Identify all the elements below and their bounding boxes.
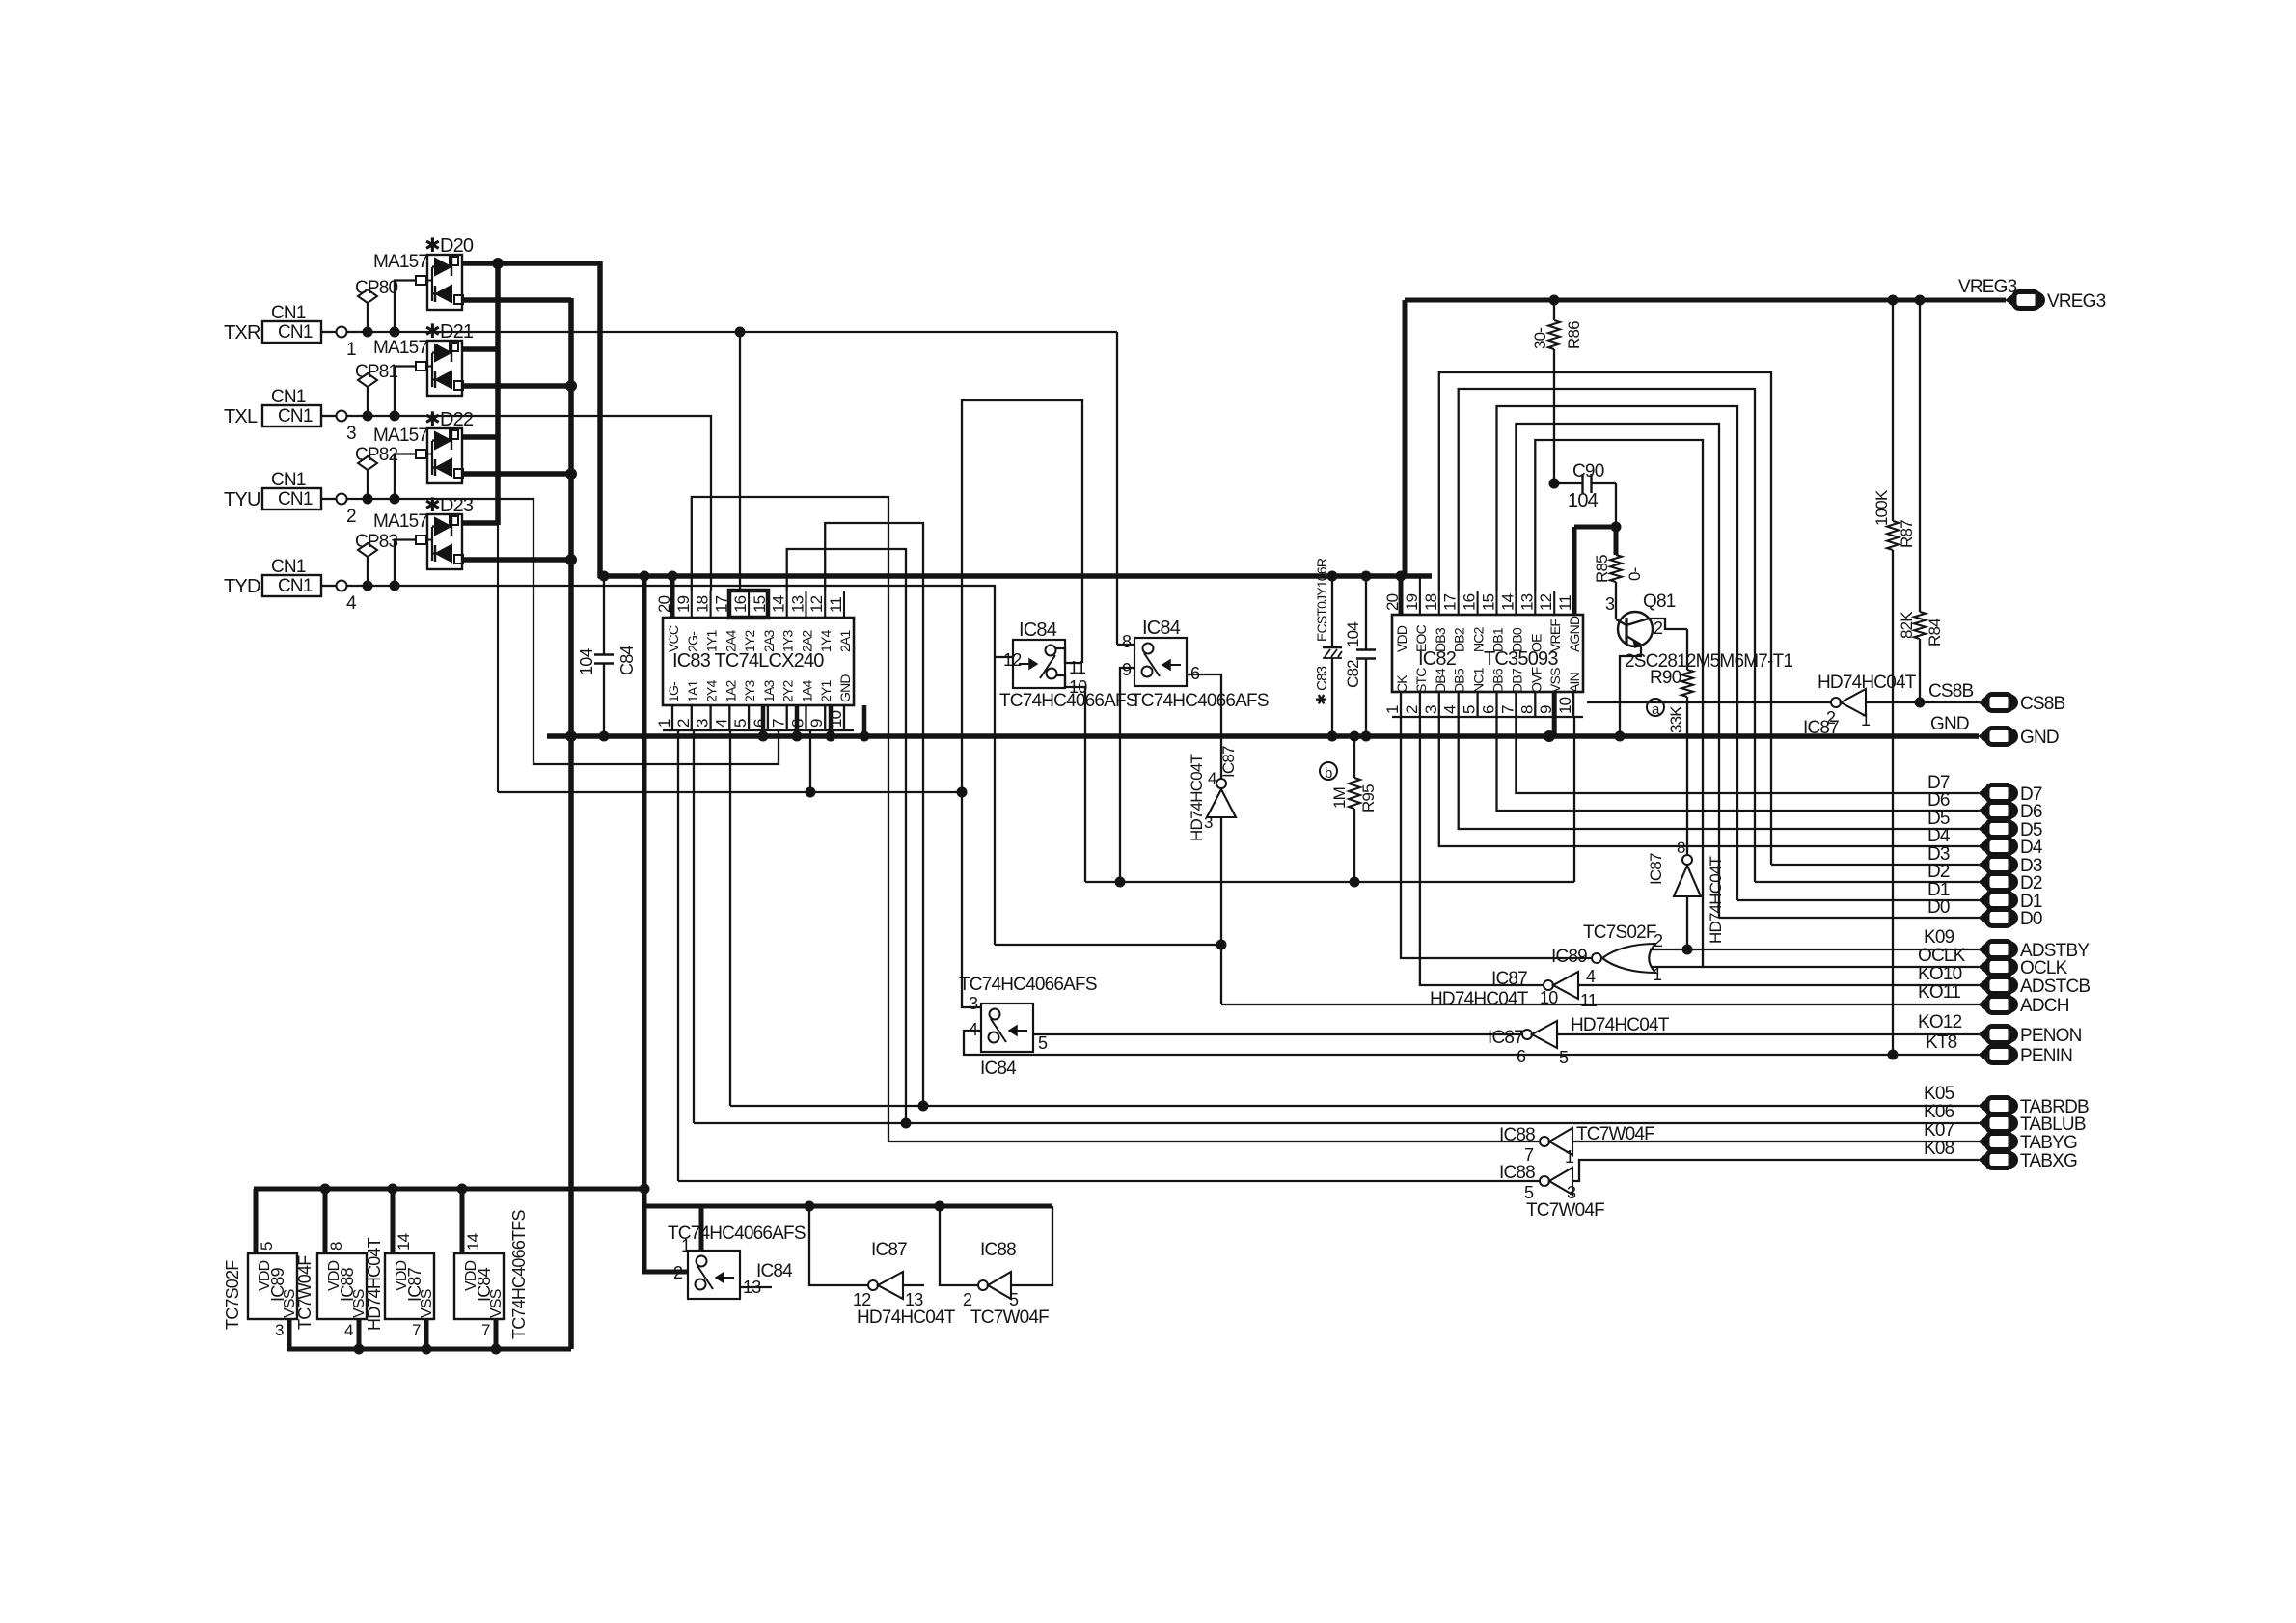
terminal D1 — [1927, 880, 2042, 912]
terminal ADSTBY — [1979, 942, 1989, 958]
svg-text:DB4: DB4 — [1433, 668, 1448, 693]
IC83 VCC pin to VDD bus — [670, 576, 675, 618]
svg-text:ADCH: ADCH — [2020, 996, 2069, 1016]
svg-text:C84: C84 — [617, 646, 637, 675]
svg-text:9: 9 — [1122, 660, 1132, 679]
terminal PENON — [1979, 1027, 1989, 1043]
svg-text:5: 5 — [1009, 1290, 1019, 1309]
wire AGND link — [1574, 522, 1621, 615]
svg-text:OCLK: OCLK — [1918, 946, 1966, 966]
svg-text:D2: D2 — [1927, 862, 1950, 882]
svg-text:D1: D1 — [2020, 892, 2042, 912]
IC83 bottom pins — [655, 674, 854, 730]
dual diode D20 MA157 — [373, 235, 474, 310]
terminal D6 — [1927, 790, 2042, 822]
svg-text:GND: GND — [837, 674, 853, 702]
IC82 top pins — [1383, 576, 1582, 652]
terminal VREG3 — [1958, 277, 2106, 312]
svg-text:1Y3: 1Y3 — [780, 629, 796, 652]
wire TYD connector node — [347, 581, 428, 591]
svg-text:TC7W04F: TC7W04F — [1526, 1200, 1604, 1221]
spark gap CP80 — [355, 278, 398, 332]
svg-text:OE: OE — [1528, 634, 1544, 652]
wire IC83 pin14 loop to K06 — [787, 549, 911, 1128]
wire D22 pin3 lead — [395, 454, 416, 500]
svg-text:11: 11 — [827, 597, 845, 613]
wire IC82 pin15 loop — [1497, 406, 1738, 900]
wire diode cathode common to VDD — [462, 259, 600, 579]
svg-text:104: 104 — [1344, 622, 1362, 647]
svg-text:IC87: IC87 — [871, 1240, 907, 1260]
svg-text:R85: R85 — [1593, 555, 1611, 583]
svg-text:17: 17 — [1441, 593, 1460, 611]
terminal CS8B — [1979, 695, 1989, 711]
svg-text:✱D20: ✱D20 — [424, 235, 474, 257]
svg-text:AIN: AIN — [1567, 673, 1582, 693]
svg-text:TC7S02F: TC7S02F — [223, 1260, 242, 1330]
NOR gate IC89 TC7S02F — [1551, 922, 1663, 986]
svg-text:R86: R86 — [1565, 321, 1583, 349]
svg-text:10: 10 — [1540, 988, 1558, 1007]
wire IC88 VDD stub — [323, 1189, 328, 1253]
wire TXL connector node — [347, 411, 428, 421]
svg-text:IC84: IC84 — [1142, 618, 1181, 639]
svg-text:VSS: VSS — [419, 1289, 435, 1318]
terminal D7 — [1927, 773, 2042, 805]
terminal GND — [1930, 714, 2059, 748]
svg-text:DB0: DB0 — [1509, 627, 1524, 652]
svg-text:11: 11 — [1069, 658, 1086, 677]
connector CN1 (TXL) — [224, 387, 356, 444]
resistor R87 100K — [1872, 300, 1916, 1059]
svg-text:TC74HC4066AFS: TC74HC4066AFS — [1131, 691, 1269, 711]
wire sw1 pin10 — [1056, 675, 1085, 882]
wire IC83 pin12 loop to K05 — [825, 523, 928, 1111]
svg-text:MA157: MA157 — [373, 338, 427, 358]
wire ADSTCB row — [1578, 964, 1979, 985]
svg-text:TC7W04F: TC7W04F — [1576, 1124, 1654, 1144]
wire sw4 pin2 hook — [644, 1206, 688, 1272]
svg-text:VSS: VSS — [1547, 668, 1563, 693]
svg-text:CN1: CN1 — [278, 489, 313, 509]
svg-text:KT8: KT8 — [1926, 1032, 1957, 1053]
wire VREG3 rail — [1405, 295, 2006, 305]
wire IC88 VSS stub — [357, 1319, 362, 1349]
svg-text:7: 7 — [1498, 705, 1517, 714]
wire column to switch pin3 — [962, 792, 981, 1007]
wire K06 row — [694, 1102, 1979, 1123]
svg-text:D7: D7 — [1927, 773, 1950, 793]
svg-text:18: 18 — [694, 595, 712, 613]
svg-text:4: 4 — [346, 593, 357, 614]
wire node T run — [498, 525, 967, 797]
wire IC83 pin1 to K08 source — [677, 730, 679, 1181]
svg-text:1: 1 — [655, 719, 673, 728]
resistor R90 33K — [1650, 629, 1693, 855]
svg-text:IC89: IC89 — [1551, 947, 1587, 967]
wire K05 row — [730, 1084, 1979, 1106]
power box IC84 — [454, 1233, 505, 1339]
wire D23 pin3 lead — [395, 540, 416, 587]
svg-text:C82: C82 — [1344, 660, 1362, 688]
svg-text:3: 3 — [275, 1321, 284, 1339]
svg-text:MA157: MA157 — [373, 426, 427, 446]
svg-text:IC87: IC87 — [1219, 746, 1238, 778]
svg-text:2A1: 2A1 — [837, 629, 853, 652]
svg-text:PENON: PENON — [2020, 1026, 2082, 1046]
svg-text:D5: D5 — [2020, 820, 2042, 840]
svg-text:14: 14 — [1498, 593, 1517, 611]
svg-text:VREG3: VREG3 — [2047, 291, 2106, 312]
svg-text:NC2: NC2 — [1471, 626, 1487, 652]
svg-text:ECST0JY106R: ECST0JY106R — [1314, 558, 1329, 642]
svg-text:CK: CK — [1394, 674, 1409, 693]
svg-text:DB2: DB2 — [1452, 627, 1467, 652]
resistor R95 1M — [1330, 731, 1378, 882]
svg-text:5: 5 — [1559, 1048, 1569, 1067]
svg-text:VCC: VCC — [666, 625, 681, 652]
svg-text:IC83 TC74LCX240: IC83 TC74LCX240 — [672, 650, 824, 672]
svg-text:6: 6 — [751, 719, 769, 728]
wire OCLK row — [1652, 946, 1979, 967]
svg-text:✱D22: ✱D22 — [424, 409, 474, 430]
svg-text:19: 19 — [674, 595, 693, 613]
svg-text:13: 13 — [1517, 593, 1536, 611]
wire IC83 pin4 to K05 — [729, 730, 731, 1106]
inverter IC88 (2/5) bottom — [940, 1206, 1052, 1328]
terminal D4 — [1927, 826, 2043, 858]
wire K07 row — [888, 1120, 1979, 1142]
svg-text:D0: D0 — [1927, 897, 1950, 918]
terminal PENIN — [1979, 1047, 1989, 1063]
svg-text:104: 104 — [1568, 490, 1599, 511]
connector CN1 (TXR) — [224, 303, 356, 360]
svg-text:PENIN: PENIN — [2020, 1046, 2072, 1066]
wire DB4 to D4 — [1439, 717, 1979, 846]
svg-text:1: 1 — [1383, 705, 1402, 714]
terminal ADSTCB — [1979, 977, 1989, 994]
svg-text:DB6: DB6 — [1490, 668, 1506, 693]
svg-text:14: 14 — [395, 1233, 413, 1251]
svg-text:13: 13 — [789, 595, 807, 613]
wire PENIN row — [964, 1031, 1979, 1055]
wire ADSTBY row — [1650, 927, 1979, 949]
resistor R84 82K — [1898, 300, 1944, 707]
svg-text:D5: D5 — [1927, 809, 1950, 829]
svg-text:11: 11 — [1556, 595, 1574, 611]
svg-text:7: 7 — [481, 1321, 490, 1339]
svg-text:2Y2: 2Y2 — [780, 679, 796, 702]
svg-text:IC84: IC84 — [756, 1261, 793, 1281]
analog switch IC84 (1/2/13) — [668, 1224, 806, 1299]
svg-text:K06: K06 — [1924, 1102, 1954, 1122]
inverter IC87 (6/5) on PENON — [1488, 1015, 1979, 1067]
resistor R86 30- — [1531, 295, 1583, 483]
svg-text:ADSTCB: ADSTCB — [2020, 977, 2090, 997]
svg-text:CN1: CN1 — [278, 576, 313, 596]
terminal TABRDB — [1979, 1098, 1989, 1114]
wire DB6 to D6 — [1497, 717, 1980, 811]
svg-text:2A3: 2A3 — [761, 629, 777, 652]
wire GND bus — [547, 731, 1979, 742]
wire TXL net — [427, 416, 711, 591]
svg-text:HD74HC04T: HD74HC04T — [1818, 673, 1917, 693]
svg-text:4: 4 — [712, 719, 730, 728]
svg-text:D4: D4 — [1927, 826, 1951, 846]
wire diode anode common to GND — [462, 298, 577, 1349]
wire DB7 to D7 — [1516, 717, 1979, 793]
svg-text:K08: K08 — [1924, 1139, 1954, 1159]
svg-text:1: 1 — [1861, 710, 1871, 729]
svg-text:IC88: IC88 — [980, 1240, 1016, 1260]
svg-text:TABYG: TABYG — [2020, 1133, 2077, 1153]
dual diode D23 MA157 — [373, 495, 474, 569]
svg-text:D0: D0 — [2020, 909, 2042, 929]
svg-text:2: 2 — [1403, 705, 1421, 714]
svg-text:1: 1 — [346, 340, 356, 360]
terminal TABYG — [1979, 1134, 1989, 1150]
svg-text:AGND: AGND — [1567, 616, 1582, 652]
svg-text:2A4: 2A4 — [723, 629, 738, 652]
svg-text:D7: D7 — [2020, 784, 2042, 805]
svg-text:5: 5 — [731, 719, 750, 728]
svg-text:6: 6 — [1480, 705, 1498, 714]
svg-text:HD74HC04T: HD74HC04T — [1571, 1015, 1670, 1035]
svg-text:K07: K07 — [1924, 1120, 1954, 1141]
capacitor C82 104 — [1344, 576, 1376, 736]
svg-text:3: 3 — [694, 719, 712, 728]
svg-text:8: 8 — [1677, 839, 1685, 857]
svg-text:2Y3: 2Y3 — [742, 679, 757, 702]
svg-text:1A1: 1A1 — [685, 679, 700, 702]
svg-text:R87: R87 — [1898, 520, 1916, 548]
svg-text:8: 8 — [327, 1242, 345, 1251]
svg-text:STC: STC — [1413, 668, 1429, 693]
svg-text:TXL: TXL — [224, 406, 258, 427]
svg-text:VSS: VSS — [488, 1289, 505, 1318]
svg-text:4: 4 — [1586, 967, 1596, 986]
svg-text:1: 1 — [681, 1236, 691, 1255]
svg-text:CS8B: CS8B — [1928, 681, 1974, 701]
svg-text:EOC: EOC — [1413, 624, 1429, 652]
svg-text:3: 3 — [1204, 813, 1213, 832]
svg-text:TC7W04F: TC7W04F — [970, 1307, 1049, 1328]
svg-text:1A4: 1A4 — [800, 679, 815, 702]
wire K08 row — [678, 1139, 1979, 1181]
svg-text:1A3: 1A3 — [761, 679, 777, 702]
svg-text:33K: 33K — [1667, 705, 1685, 733]
terminal ADCH — [1979, 997, 1989, 1013]
svg-text:3: 3 — [969, 994, 978, 1013]
svg-text:KO11: KO11 — [1918, 982, 1960, 1003]
svg-text:TYD: TYD — [224, 576, 260, 597]
svg-text:VREG3: VREG3 — [1958, 277, 2017, 297]
svg-text:D6: D6 — [2020, 802, 2042, 822]
IC IC83 TC74LCX240 body — [663, 618, 854, 705]
wire DB5 to D5 — [1459, 717, 1979, 829]
svg-text:MA157: MA157 — [373, 511, 427, 532]
svg-text:R95: R95 — [1359, 784, 1378, 812]
wire sw2 pin9 — [1115, 668, 1134, 887]
svg-text:D1: D1 — [1927, 880, 1950, 900]
svg-text:3: 3 — [346, 424, 356, 444]
inverter IC87 (4/3) HD74HC04T — [1188, 746, 1238, 841]
capacitor C90 104 — [1549, 461, 1616, 527]
wire TXR net — [427, 327, 1117, 645]
wire VREG3 trunk to VDD bus — [1403, 300, 1408, 576]
svg-text:TABLUB: TABLUB — [2020, 1114, 2086, 1135]
wire switch sw1 upper loop — [962, 400, 1082, 792]
svg-text:4: 4 — [344, 1321, 353, 1339]
svg-text:8: 8 — [1122, 632, 1132, 651]
svg-text:1Y2: 1Y2 — [742, 629, 757, 652]
svg-text:12: 12 — [1003, 650, 1022, 670]
svg-text:12: 12 — [853, 1290, 871, 1309]
analog switch IC84 (3/4/5) — [959, 975, 1097, 1079]
wire CS8B net — [1866, 681, 1979, 702]
IC83 ground stubs — [758, 705, 869, 741]
wire IC82 pin17 loop — [1459, 389, 1755, 882]
wire D2 from loop — [1755, 881, 1979, 883]
svg-text:R90: R90 — [1650, 668, 1681, 688]
wire IC89 VSS stub — [287, 1319, 292, 1349]
svg-text:16: 16 — [1461, 593, 1479, 611]
power box IC89 — [248, 1242, 298, 1339]
connector CN1 (TYU) — [224, 470, 356, 527]
svg-text:KO12: KO12 — [1918, 1012, 1962, 1032]
svg-text:15: 15 — [1480, 593, 1498, 611]
spark gap CP83 — [355, 532, 398, 586]
svg-text:2: 2 — [346, 507, 356, 527]
inverter IC87 (12/13) bottom — [809, 1206, 956, 1328]
svg-text:2Y1: 2Y1 — [818, 679, 834, 702]
svg-text:TC74HC4066AFS: TC74HC4066AFS — [999, 691, 1137, 711]
wire VDD trunk — [640, 576, 649, 1272]
svg-text:IC84: IC84 — [980, 1059, 1017, 1079]
power box IC87 — [385, 1233, 435, 1339]
svg-text:Q81: Q81 — [1643, 591, 1676, 612]
wire sw2 pin6 to inverter — [1187, 674, 1221, 779]
node a marker — [1647, 699, 1664, 718]
terminal OCLK — [1979, 959, 1989, 976]
svg-text:✱ C83: ✱ C83 — [1314, 666, 1330, 705]
svg-text:R84: R84 — [1926, 619, 1944, 646]
wire TYU connector node — [347, 494, 428, 504]
inverter IC87 (8) on ADSTBY — [1647, 839, 1725, 954]
wire D21 pin3 lead — [395, 367, 416, 417]
svg-text:1Y1: 1Y1 — [704, 629, 720, 652]
dual diode D22 MA157 — [373, 409, 474, 483]
power box IC88 — [317, 1242, 368, 1339]
svg-text:TC74HC4066AFS: TC74HC4066AFS — [959, 975, 1097, 995]
svg-text:7: 7 — [1524, 1145, 1534, 1165]
svg-text:C90: C90 — [1572, 461, 1604, 481]
svg-text:2: 2 — [963, 1290, 972, 1309]
svg-text:KO10: KO10 — [1918, 964, 1962, 984]
wire IC83 pin2 to K06 — [693, 730, 695, 1123]
IC IC82 TC35093 body — [1392, 615, 1583, 692]
svg-text:3: 3 — [1605, 594, 1615, 614]
node b marker — [1320, 762, 1337, 782]
svg-text:IC87: IC87 — [1803, 718, 1839, 738]
capacitor C83 ECST0JY106R — [1314, 558, 1342, 736]
svg-text:2: 2 — [674, 719, 693, 728]
wire TXR connector node — [347, 327, 428, 337]
wire PENON row — [1033, 1012, 1962, 1034]
svg-text:1A2: 1A2 — [723, 679, 738, 702]
wire sw2 pin8 — [1117, 644, 1134, 646]
dual diode D21 MA157 — [373, 321, 474, 396]
svg-text:30-: 30- — [1531, 328, 1549, 349]
svg-text:14: 14 — [464, 1233, 482, 1251]
wire IC87 VDD stub — [391, 1189, 396, 1253]
analog switch IC84 (12/11/10) — [999, 619, 1137, 711]
terminal D5 — [1927, 809, 2042, 840]
wire IC89 VDD stub — [254, 1189, 259, 1253]
svg-text:TC74HC4066TFS: TC74HC4066TFS — [509, 1210, 529, 1339]
svg-text:NC1: NC1 — [1471, 667, 1487, 693]
svg-text:0-: 0- — [1626, 567, 1644, 581]
svg-text:D2: D2 — [2020, 873, 2042, 894]
svg-text:2G-: 2G- — [685, 631, 700, 652]
svg-text:13: 13 — [905, 1290, 923, 1309]
svg-text:2: 2 — [1654, 619, 1663, 638]
svg-text:VREF: VREF — [1547, 619, 1563, 652]
svg-text:3: 3 — [1567, 1183, 1576, 1202]
svg-text:2: 2 — [1654, 931, 1663, 950]
svg-text:D4: D4 — [2020, 838, 2043, 858]
svg-text:4: 4 — [1441, 705, 1460, 714]
svg-text:104: 104 — [577, 648, 596, 675]
wire sw1 pin12 — [995, 656, 1013, 658]
svg-text:TC7W04F: TC7W04F — [295, 1255, 314, 1330]
terminal D0 — [1927, 897, 2042, 929]
svg-text:HD74HC04T: HD74HC04T — [857, 1307, 956, 1328]
svg-text:IC84: IC84 — [1019, 619, 1057, 641]
connector CN1 (TYD) — [224, 557, 357, 614]
wire IC83 pin19 loop to K07 — [692, 497, 888, 1142]
wire TYD net — [427, 586, 995, 657]
svg-text:19: 19 — [1403, 593, 1421, 611]
svg-text:14: 14 — [770, 595, 788, 613]
wire sw1 control row — [995, 940, 1226, 949]
svg-text:DB5: DB5 — [1452, 668, 1467, 693]
terminal D2 — [1927, 862, 2042, 894]
svg-text:5: 5 — [1524, 1183, 1534, 1202]
svg-text:6: 6 — [1517, 1047, 1526, 1066]
svg-text:9: 9 — [807, 719, 826, 728]
svg-text:b: b — [1325, 765, 1332, 782]
svg-text:TYU: TYU — [224, 489, 260, 510]
svg-text:2A2: 2A2 — [800, 629, 815, 652]
wire AIN line — [1085, 717, 1574, 887]
svg-text:1: 1 — [1565, 1147, 1574, 1167]
wire IC84 VDD stub — [460, 1189, 465, 1253]
svg-text:D3: D3 — [1927, 844, 1950, 865]
svg-text:IC87: IC87 — [1491, 969, 1527, 989]
wire sw4 pin13 — [740, 1286, 772, 1288]
svg-text:1M: 1M — [1330, 787, 1349, 809]
wire D0 from loop — [1719, 917, 1979, 919]
wire IC82 pin14 loop — [1516, 424, 1719, 918]
svg-text:CS8B: CS8B — [2020, 694, 2065, 714]
svg-text:100K: 100K — [1872, 489, 1891, 526]
wire sw1 pin11 — [1055, 648, 1082, 663]
wire IC84 VSS stub — [494, 1319, 499, 1349]
inverter IC87 (10/11) on ADSTCB — [1430, 969, 1598, 1010]
svg-text:11: 11 — [1580, 991, 1598, 1010]
terminal TABXG — [1979, 1152, 1989, 1169]
